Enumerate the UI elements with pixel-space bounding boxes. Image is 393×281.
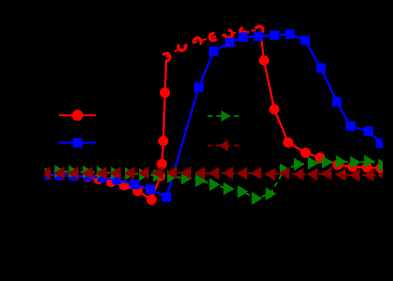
red solid series line (rising branch) — [45, 60, 167, 200]
legend dark red entry — [208, 140, 241, 151]
dark red series markers — [41, 167, 50, 178]
red solid series line (falling branch) — [260, 32, 382, 169]
dark red series line — [46, 173, 384, 175]
legend blue entry — [59, 138, 96, 148]
red solid series markers — [39, 170, 49, 180]
blue series markers — [40, 171, 49, 180]
blue series line — [45, 34, 384, 197]
green series line — [45, 161, 383, 198]
red dashed series line — [166, 30, 259, 57]
legend green entry — [208, 110, 241, 121]
green series markers — [41, 166, 50, 177]
legend red entry — [59, 110, 96, 121]
red dashed series open-circle markers — [161, 52, 171, 62]
